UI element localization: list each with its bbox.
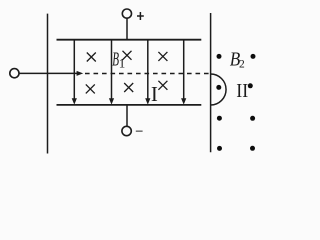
field arrow line 2 [111, 40, 113, 101]
B1 flux crosses [86, 51, 168, 94]
dashed axis line [85, 73, 210, 75]
field arrow head 1 [72, 98, 77, 104]
plus sign of source [137, 12, 144, 20]
input arrow head [77, 71, 84, 76]
field arrow head 4 [181, 98, 186, 104]
- terminal circle [122, 126, 131, 135]
cross x1 (upper row) [87, 53, 96, 62]
+ terminal circle [122, 9, 131, 18]
cross x3 (upper row) [158, 52, 167, 61]
field arrow line 1 [73, 40, 75, 101]
left boundary line [47, 14, 49, 154]
field arrow head 3 [145, 98, 150, 104]
wire to + terminal [126, 18, 128, 40]
wire to - terminal [126, 105, 128, 126]
left input terminal circle [10, 69, 19, 78]
plate top edge [57, 39, 202, 41]
cross x5 (lower row) [124, 83, 133, 92]
field arrow head 2 [109, 98, 114, 104]
right boundary line (region II border) [210, 13, 212, 152]
B2 field dots grid [216, 54, 255, 151]
plate bottom edge [57, 104, 202, 106]
minus sign of source [136, 130, 143, 132]
field arrow line 3 [147, 40, 149, 101]
cross x4 (lower row) [86, 84, 95, 93]
svg-text:1: 1 [119, 55, 126, 70]
cross x2 (upper row) [123, 51, 132, 60]
svg-text:2: 2 [239, 59, 245, 71]
cross x6 (lower row) [158, 81, 167, 90]
left input wire [19, 72, 79, 74]
svg-text:II: II [236, 80, 248, 102]
svg-text:I: I [151, 82, 158, 106]
field arrow line 4 [183, 40, 185, 101]
semicircular path in region II [211, 74, 227, 105]
